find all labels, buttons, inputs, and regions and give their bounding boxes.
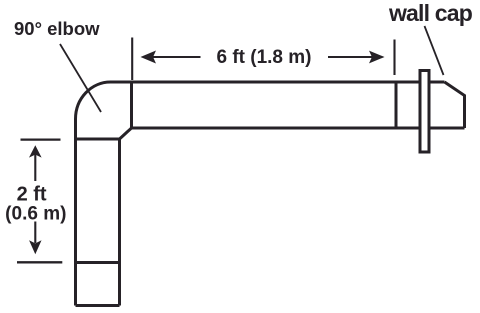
vertical duct right edge, bottom end cap xyxy=(76,139,120,306)
leader line from 90° elbow label to elbow xyxy=(60,44,101,112)
6 ft dimension left arrow xyxy=(142,52,201,63)
horizontal duct bottom edge xyxy=(132,127,465,130)
dimension extension line right (above wall joint) xyxy=(393,40,395,76)
wall cap chamfered nose xyxy=(445,82,465,128)
lower duct coupling seam xyxy=(76,261,120,264)
svg-text:90° elbow: 90° elbow xyxy=(14,18,100,39)
svg-text:(0.6 m): (0.6 m) xyxy=(5,203,66,224)
elbow-to-vertical-duct joint seam xyxy=(76,138,120,141)
svg-text:wall cap: wall cap xyxy=(388,0,473,26)
dimension extension line left (above elbow joint) xyxy=(131,38,133,81)
svg-text:6 ft (1.8 m): 6 ft (1.8 m) xyxy=(216,47,311,68)
svg-text:2 ft: 2 ft xyxy=(17,184,47,206)
2 ft dimension top tick xyxy=(21,139,61,141)
leader line from wall cap label to cap xyxy=(425,26,444,75)
duct outer edge: vertical duct left side with 90° elbow arc into horizontal top edge xyxy=(76,82,445,306)
duct-to-wall-cap joint seam xyxy=(395,82,398,128)
2 ft dimension down arrow xyxy=(30,222,40,254)
2 ft dimension bottom tick xyxy=(17,261,62,263)
2 ft dimension up arrow xyxy=(30,146,40,181)
elbow-to-horizontal-duct joint seam xyxy=(130,82,133,128)
6 ft dimension right arrow xyxy=(328,52,383,63)
elbow inner chamfer xyxy=(120,128,132,139)
wall cap mounting plate xyxy=(420,71,429,153)
